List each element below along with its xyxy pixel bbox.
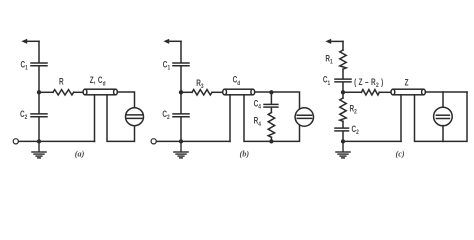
svg-text:Z: Z xyxy=(405,77,409,87)
cable Cd (b) xyxy=(223,89,255,95)
wire C4 lead (b) xyxy=(270,92,272,103)
cable Z (c) xyxy=(391,89,425,95)
node junction dot (b) xyxy=(179,90,183,94)
wire between C1 and C2 (b) xyxy=(180,67,182,114)
resistor R2 (c) xyxy=(340,98,346,121)
cable Z,Cd (a) xyxy=(83,89,117,95)
wire loop right and bottom (c) xyxy=(415,92,468,141)
svg-text:(b): (b) xyxy=(240,149,250,158)
wire R lead (a) xyxy=(39,91,53,93)
capacitor C1 (c) xyxy=(335,79,351,82)
node C4 branch top dot (b) xyxy=(269,90,273,94)
wire cable to loop top (c) xyxy=(425,91,467,93)
terminal input circle (a) xyxy=(13,139,18,144)
source U (a) xyxy=(126,108,144,126)
source U (c) xyxy=(434,107,453,126)
wire source bottom loop (a) xyxy=(107,95,135,141)
wire main vertical top (c) xyxy=(342,41,344,50)
wire cable shield drop (a) xyxy=(94,95,96,141)
node R4 bottom dot (b) xyxy=(269,139,273,143)
resistor R4 (b) xyxy=(268,113,274,138)
svg-text:(c): (c) xyxy=(396,149,405,158)
wire C2 to bottom rail (b) xyxy=(180,118,182,142)
node bottom junction dot (b) xyxy=(179,139,183,143)
svg-text:(a): (a) xyxy=(75,149,85,158)
wire R3 lead (b) xyxy=(181,91,192,93)
wire cable to source corner (a) xyxy=(117,92,134,108)
wire cable to source corner (b) xyxy=(255,92,300,109)
resistor R (a) xyxy=(53,90,74,95)
wire main vertical top (b) xyxy=(180,41,182,62)
capacitor C2 (b) xyxy=(173,114,189,117)
resistor (Z-R2) (c) xyxy=(361,90,379,95)
wire cable shield drop (b) xyxy=(229,95,231,141)
capacitor C4 (b) xyxy=(264,104,278,107)
wire source bottom loop (b) xyxy=(244,95,300,141)
wire main vertical top (a) xyxy=(38,41,40,62)
node junction dot (c) xyxy=(341,90,345,94)
wire R1 to C1 (c) xyxy=(342,69,344,78)
capacitor C1 (b) xyxy=(173,63,189,66)
node bottom junction dot (a) xyxy=(37,139,41,143)
svg-text:R: R xyxy=(59,76,64,86)
arrow (output to amplifier, circuit b) xyxy=(163,39,181,44)
wire between C1 and C2 (a) xyxy=(38,67,40,114)
wire C1 to junction (c) xyxy=(342,83,344,98)
wire bottom rail (c) xyxy=(343,140,401,142)
node bottom junction dot (c) xyxy=(341,139,345,143)
wire cable shield drop (c) xyxy=(400,95,402,141)
arrow (output to amplifier, circuit c) xyxy=(325,39,343,44)
wire resistor to cable (c) xyxy=(379,91,391,93)
ground (c) xyxy=(336,141,350,158)
wire (Z-R2) lead (c) xyxy=(343,91,361,93)
wire source top branch (c) xyxy=(442,92,444,108)
wire C2 to bottom junction (c) xyxy=(342,132,344,142)
wire C4 to R4 (b) xyxy=(270,108,272,113)
resistor R1 (c) xyxy=(340,50,346,69)
wire R to cable (a) xyxy=(74,91,84,93)
ground (b) xyxy=(174,141,188,158)
arrow (output to amplifier, circuit a) xyxy=(21,39,39,44)
source U (b) xyxy=(295,108,313,126)
wire R2 to C2 (c) xyxy=(342,121,344,127)
wire R4 to bottom (b) xyxy=(270,137,272,141)
wire R3 to cable (b) xyxy=(212,91,223,93)
node junction dot (a) xyxy=(37,90,41,94)
wire C2 to bottom rail (a) xyxy=(38,118,40,142)
wire source bottom branch (c) xyxy=(442,126,444,142)
capacitor C1 (a) xyxy=(31,63,47,66)
wire bottom rail (a) xyxy=(19,140,95,142)
wire bottom rail (b) xyxy=(156,140,230,142)
ground (a) xyxy=(32,141,46,158)
capacitor C2 (c) xyxy=(335,128,349,131)
resistor R3 (b) xyxy=(192,90,212,95)
capacitor C2 (a) xyxy=(31,114,47,117)
terminal input circle (b) xyxy=(151,139,156,144)
